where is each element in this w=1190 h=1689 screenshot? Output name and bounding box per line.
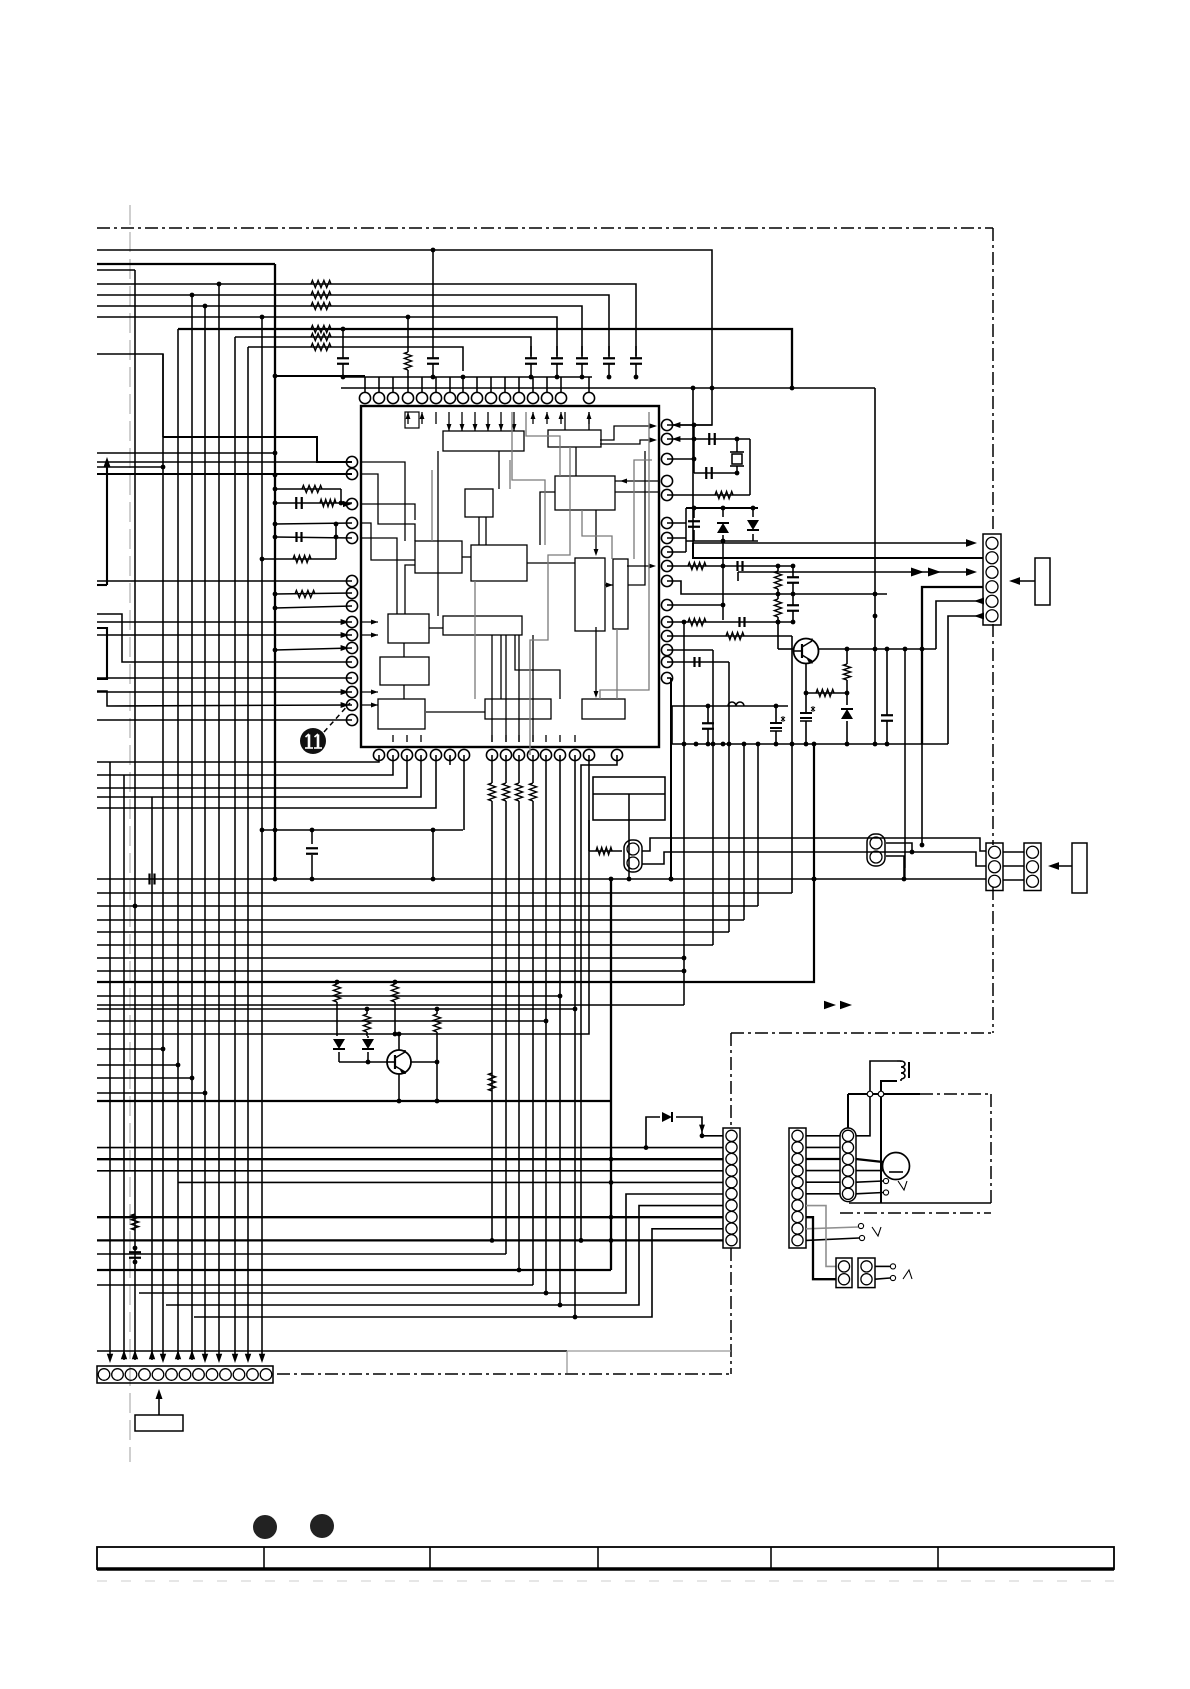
- resistor above IC: [404, 346, 411, 377]
- resistor R-d: [311, 325, 331, 332]
- capacitor C-x2: [706, 467, 712, 479]
- connector CN2 2pin: [624, 840, 642, 872]
- connector CN4 3pin: [986, 843, 1003, 891]
- connector CN8 6pin: [840, 1128, 856, 1202]
- capacitor C-x1: [709, 433, 715, 445]
- IC inner block M: [485, 699, 551, 719]
- dash-dot box motor bottom: [840, 1212, 991, 1214]
- resistor R-c: [311, 302, 331, 309]
- diode D2: [747, 508, 759, 541]
- border dash-dot right upper: [992, 228, 994, 533]
- wire pin589 drop: [97, 755, 589, 1036]
- border dash-dot left of lower block lower: [730, 1248, 732, 1374]
- wire Y879 long: [97, 877, 986, 882]
- resistor R-q1: [816, 689, 834, 696]
- wire thick Y329: [178, 329, 794, 390]
- resistor R-x492: [488, 1073, 495, 1091]
- IC inner block H: [613, 559, 628, 629]
- resistor columns below IC: [0, 0, 1, 1]
- wire Y1101 thick: [97, 1099, 611, 1104]
- wire bus Y377: [341, 376, 592, 378]
- wire pin450 stub: [449, 755, 451, 765]
- capacitor C-bl: [129, 1246, 141, 1265]
- diode D-m2: [362, 1036, 374, 1062]
- wire Y945: [97, 944, 713, 946]
- vertical X750: [749, 439, 751, 495]
- wire pin439: [667, 436, 750, 442]
- resistor network pin504 upper: [275, 485, 343, 505]
- border dash-dot horiz mid: [731, 1032, 993, 1034]
- capacitor C-879: [150, 874, 155, 885]
- wire X905 drop: [904, 649, 906, 879]
- border dash-dot right mid: [992, 624, 994, 845]
- resistor R-b: [311, 291, 331, 298]
- wire Y306: [97, 306, 582, 356]
- IC inner block G: [575, 558, 605, 631]
- resistor R-bl: [131, 1214, 138, 1230]
- wire Y337: [235, 337, 531, 356]
- capacitor C-d1: [688, 508, 700, 541]
- wire X611 thick: [609, 879, 614, 1270]
- IC bottom pins: [373, 749, 622, 760]
- resistor R-a: [311, 280, 331, 287]
- connector CN3 2pin: [867, 834, 885, 866]
- wire pin662 cap: [667, 657, 729, 667]
- wire diode-cluster bottom: [686, 539, 758, 544]
- block below CN11: [135, 1389, 183, 1431]
- wire F4 Y1169: [97, 1170, 723, 1172]
- junction dots left verticals: [190, 282, 265, 320]
- IC inner block I: [388, 614, 429, 643]
- wire conn1 line5: [936, 598, 984, 650]
- wires CN7 gray right: [806, 1223, 865, 1240]
- wires IC bottom-left exits: [97, 755, 436, 808]
- wire Q2 right: [411, 1060, 439, 1065]
- switch symbol SW1: [895, 1181, 910, 1190]
- wire coil top link: [856, 1061, 897, 1136]
- capacitor row above IC: [337, 346, 642, 377]
- column above cap 343: [341, 327, 346, 346]
- wire diode-cluster top: [686, 506, 758, 511]
- wire solid above motor-box bottom: [849, 1202, 991, 1204]
- wire Q1 emitter: [804, 664, 809, 695]
- diode D-m1: [333, 1036, 345, 1062]
- wire bus Y744: [672, 742, 948, 747]
- wire pin636 resistor: [667, 632, 794, 893]
- wire Q2 collector: [399, 1034, 405, 1050]
- IC inner wires gray: [432, 412, 652, 755]
- IC inner block D: [465, 489, 493, 517]
- wire pin662 jog: [97, 614, 352, 662]
- IC U11 body: [361, 406, 659, 747]
- resistor R-cn2: [589, 820, 622, 855]
- motor M1: [883, 1153, 910, 1180]
- wire Y693: [806, 692, 847, 694]
- wire Y1270 thick: [97, 1268, 611, 1273]
- wire Y932: [97, 931, 729, 933]
- resistor R-m4: [433, 1009, 440, 1062]
- wire Y284 w/ corner: [97, 284, 636, 356]
- wire X533 long: [532, 801, 534, 1285]
- wire CN3 drop: [886, 856, 906, 881]
- wire CN8 pin6 contact: [856, 1190, 889, 1195]
- wire Q1 base: [776, 620, 793, 649]
- wire X744 drop: [742, 742, 747, 920]
- wire pin464 down: [463, 755, 465, 830]
- border dash-dot right lower: [992, 887, 994, 1033]
- capacitor C-s1 series: [738, 561, 743, 571]
- wire gray to CN9: [806, 1206, 836, 1267]
- capacitor+resistor into pin504: [275, 497, 352, 509]
- resistors R-col below IC: [488, 755, 536, 801]
- vertical X672: [671, 706, 673, 744]
- IC inner block L: [378, 699, 425, 729]
- IC left pins: [346, 456, 357, 725]
- wire crystal lower: [694, 437, 739, 476]
- wire CN8 pin4 link: [856, 1170, 884, 1172]
- dots on bus377: [341, 375, 639, 380]
- capacitor C-b4: [881, 649, 893, 744]
- wire pin523: [275, 523, 352, 524]
- wire hop circles: [867, 1091, 884, 1097]
- wire Y270: [97, 269, 135, 271]
- wire Y958: [97, 956, 686, 961]
- wire thick bracket left: [97, 628, 107, 679]
- wire Q2 base feed: [339, 1060, 387, 1065]
- IC inner block F: [471, 545, 527, 581]
- wire Y706: [672, 704, 788, 709]
- wire F5 Y1180: [178, 1181, 723, 1183]
- wire coil bottom link: [881, 1081, 897, 1203]
- IC top pins: [359, 377, 594, 404]
- callout dot right: [310, 1514, 334, 1538]
- wire pin650: [667, 649, 713, 651]
- vertical X723 down: [721, 541, 726, 620]
- inductor L1: [728, 702, 744, 706]
- IC inner block J: [443, 616, 522, 635]
- wire Y462 to pin: [97, 461, 352, 463]
- capacitor C-r2: [787, 566, 799, 594]
- arrowheads into left pins: [341, 619, 349, 708]
- resistor R-r2: [774, 594, 781, 622]
- wire X275 to Y376 branch: [275, 375, 365, 377]
- block to CN1: [1009, 558, 1050, 605]
- wire Y1065: [97, 1063, 180, 1068]
- resistor into pin593: [273, 590, 352, 597]
- IC inner block K: [380, 657, 429, 685]
- wire pin622 resistor: [667, 618, 795, 625]
- wire pin546 drop: [97, 755, 548, 1295]
- resistor R-r1: [774, 566, 781, 594]
- wire X758 drop: [756, 742, 761, 906]
- wire Y1317 step: [194, 1229, 723, 1317]
- border dash-dot left of lower block upper: [730, 1033, 732, 1126]
- wire pin495 resistor: [667, 491, 750, 498]
- transistor Q1: [794, 639, 819, 664]
- wire Y467: [97, 465, 165, 470]
- wire pin425: [667, 422, 712, 428]
- wire F2 Y1147: [97, 1145, 723, 1150]
- connector CN10 2pin: [858, 1258, 875, 1288]
- wire conn1 line4 thick: [922, 587, 983, 744]
- wire Y1285: [97, 1284, 533, 1286]
- vertical X433 mid: [431, 830, 436, 881]
- wire pin605: [667, 604, 723, 606]
- wire Y453: [97, 452, 275, 454]
- border dash-dot bottom: [277, 1373, 731, 1375]
- wire bus top Y250: [97, 250, 712, 425]
- wire thick to CN9: [806, 1217, 836, 1279]
- wire CN2 to CN4 mid: [642, 852, 986, 866]
- wire bus Y388: [341, 386, 875, 391]
- IC inner block C: [555, 476, 615, 510]
- capacitor C-b2: [770, 706, 785, 744]
- connector CN11 strip 13pin: [97, 1366, 273, 1383]
- wire X492 long: [491, 801, 493, 1240]
- wire bundle left verticals: [110, 270, 262, 1360]
- connector CN7 10pin: [789, 1128, 806, 1248]
- wires CN7-CN8: [806, 1136, 840, 1194]
- resistor R-q2: [843, 649, 850, 695]
- wire Y906: [97, 904, 758, 909]
- wire pin692: [97, 691, 352, 693]
- resistor R-f: [311, 343, 331, 350]
- IC inner wires mid: [361, 423, 659, 742]
- connector CN5 3pin: [1024, 843, 1041, 891]
- vertical X262 extra: [260, 828, 265, 833]
- wire conn1 line6: [948, 613, 984, 745]
- wire X437 down: [436, 1062, 438, 1101]
- info table T1: [593, 777, 665, 820]
- wires CN4-CN5: [1003, 852, 1024, 880]
- wire Y830: [261, 828, 463, 833]
- column above cap 433: [431, 248, 436, 346]
- wire Y474 to pin: [97, 473, 352, 475]
- double arrow symbol: [911, 567, 941, 576]
- wire F10 Y1237 thick: [97, 1238, 723, 1243]
- connector CN1 6pin: [983, 534, 1001, 625]
- wire Y354 stepped: [97, 354, 352, 462]
- crystal X1: [730, 439, 744, 473]
- wire Y1005: [97, 1004, 684, 1006]
- wire Y1254: [97, 1253, 506, 1255]
- resistor R-m2: [391, 982, 398, 1034]
- dots on X275: [273, 374, 278, 833]
- wire Y1093: [97, 1091, 207, 1096]
- arrowheads into CN11: [107, 1350, 265, 1363]
- wire Y317: [97, 317, 557, 356]
- resistor R-m1: [333, 982, 340, 1036]
- callout dot left: [253, 1515, 277, 1539]
- block to CN5: [1048, 843, 1087, 893]
- inductor L2: [897, 1061, 909, 1081]
- wire Q2 emitter: [397, 1074, 402, 1103]
- transistor Q2: [387, 1050, 411, 1074]
- wire Y971: [97, 969, 686, 974]
- wire Y893: [97, 892, 792, 894]
- wire F8 Y1213 thick: [97, 1216, 723, 1218]
- IC right pins: [661, 419, 672, 683]
- connector CN6 10pin: [723, 1128, 740, 1248]
- capacitor C-s2 series: [740, 617, 745, 627]
- diode D3: [841, 693, 853, 744]
- resistor R-538: [260, 555, 336, 562]
- capacitor C-m1: [306, 830, 318, 881]
- wire X729 drop: [727, 662, 732, 932]
- wire F3 Y1158 thick: [97, 1158, 723, 1160]
- diode D4 loop: [646, 1112, 723, 1148]
- wire X506 long: [505, 801, 507, 1254]
- wire X713 drop: [711, 650, 716, 945]
- double arrow right: [824, 1001, 852, 1009]
- wire Y1049: [97, 1047, 165, 1052]
- wire X847 drop: [847, 1094, 849, 1128]
- wire pin566 resistor: [667, 562, 795, 569]
- vertical X694: [693, 425, 695, 473]
- wire conn1 line2: [693, 543, 983, 558]
- wire Y1305 step: [166, 1206, 723, 1305]
- IC inner block N: [582, 699, 625, 719]
- wire thick Y264: [97, 263, 275, 265]
- capacitor C-b1: [702, 706, 714, 744]
- wire CN8 pin5 contact: [856, 1178, 889, 1183]
- switch symbol SW3: [900, 1270, 915, 1279]
- IC inner wires top: [405, 412, 591, 476]
- capacitor C-r3: [787, 594, 799, 622]
- wire CN3 top link: [886, 843, 914, 854]
- wire thick X275 vertical: [274, 264, 276, 879]
- wire pin560 drop: [97, 755, 562, 1307]
- wire pin538 cap: [275, 522, 352, 559]
- wire X519 long: [518, 801, 520, 1270]
- IC inner block B: [548, 430, 601, 447]
- wire Y1351: [97, 1351, 731, 1373]
- wire CN8 to motor: [856, 1159, 883, 1162]
- dash-dot box motor right: [990, 1094, 992, 1203]
- wire pin705 jog: [97, 691, 352, 706]
- switch symbol SW2: [872, 1227, 881, 1236]
- capacitor C-b3: [800, 693, 815, 744]
- IC reference bubble 11: [300, 703, 350, 754]
- page guide line (gray dash): [129, 205, 131, 1462]
- footer table: [97, 1547, 1114, 1569]
- border dash-dot top: [97, 227, 993, 229]
- resistor R-e: [311, 333, 331, 340]
- wire CN10 contacts: [875, 1264, 896, 1281]
- wire CN2 to CN4 upper: [642, 838, 986, 851]
- dash-dot box motor top: [848, 1093, 991, 1095]
- IC inner block A: [443, 431, 524, 451]
- wire Q1 collector rail: [818, 647, 936, 652]
- wire conn1 line3: [738, 568, 977, 581]
- wire Y1078: [97, 1076, 194, 1081]
- wire pin617 drop: [579, 755, 617, 1243]
- IC inner bottom stubs: [393, 735, 575, 742]
- IC inner block E: [415, 541, 462, 573]
- wire pins 523-552 to cluster: [667, 508, 686, 552]
- wires to left pins lower: [97, 581, 352, 720]
- column above res 408: [406, 315, 411, 346]
- wire pin581 rail: [667, 581, 887, 596]
- wire table drop: [627, 820, 632, 881]
- wire pin575 drop: [97, 755, 577, 1319]
- wire thick arrow-up left: [97, 457, 111, 585]
- wire pin606: [273, 606, 352, 611]
- wire Y347: [248, 347, 463, 371]
- wire X684 drop: [682, 620, 687, 1005]
- wire Y920: [97, 919, 744, 921]
- wire Y1293 step: [139, 1194, 723, 1293]
- wire pin459: [667, 437, 696, 462]
- vertical X671: [667, 678, 673, 881]
- wire X922 drop: [920, 744, 925, 847]
- resistor R-m3: [363, 1009, 370, 1036]
- connector CN9 2pin: [836, 1258, 852, 1288]
- wire Y982 thick: [97, 742, 816, 985]
- diode D1: [717, 508, 729, 541]
- wire conn1 line1: [691, 386, 977, 547]
- wire Y295: [97, 295, 609, 356]
- footer faint dashes: [97, 1580, 1114, 1582]
- wire pin648: [273, 648, 352, 653]
- vertical X875: [873, 388, 878, 746]
